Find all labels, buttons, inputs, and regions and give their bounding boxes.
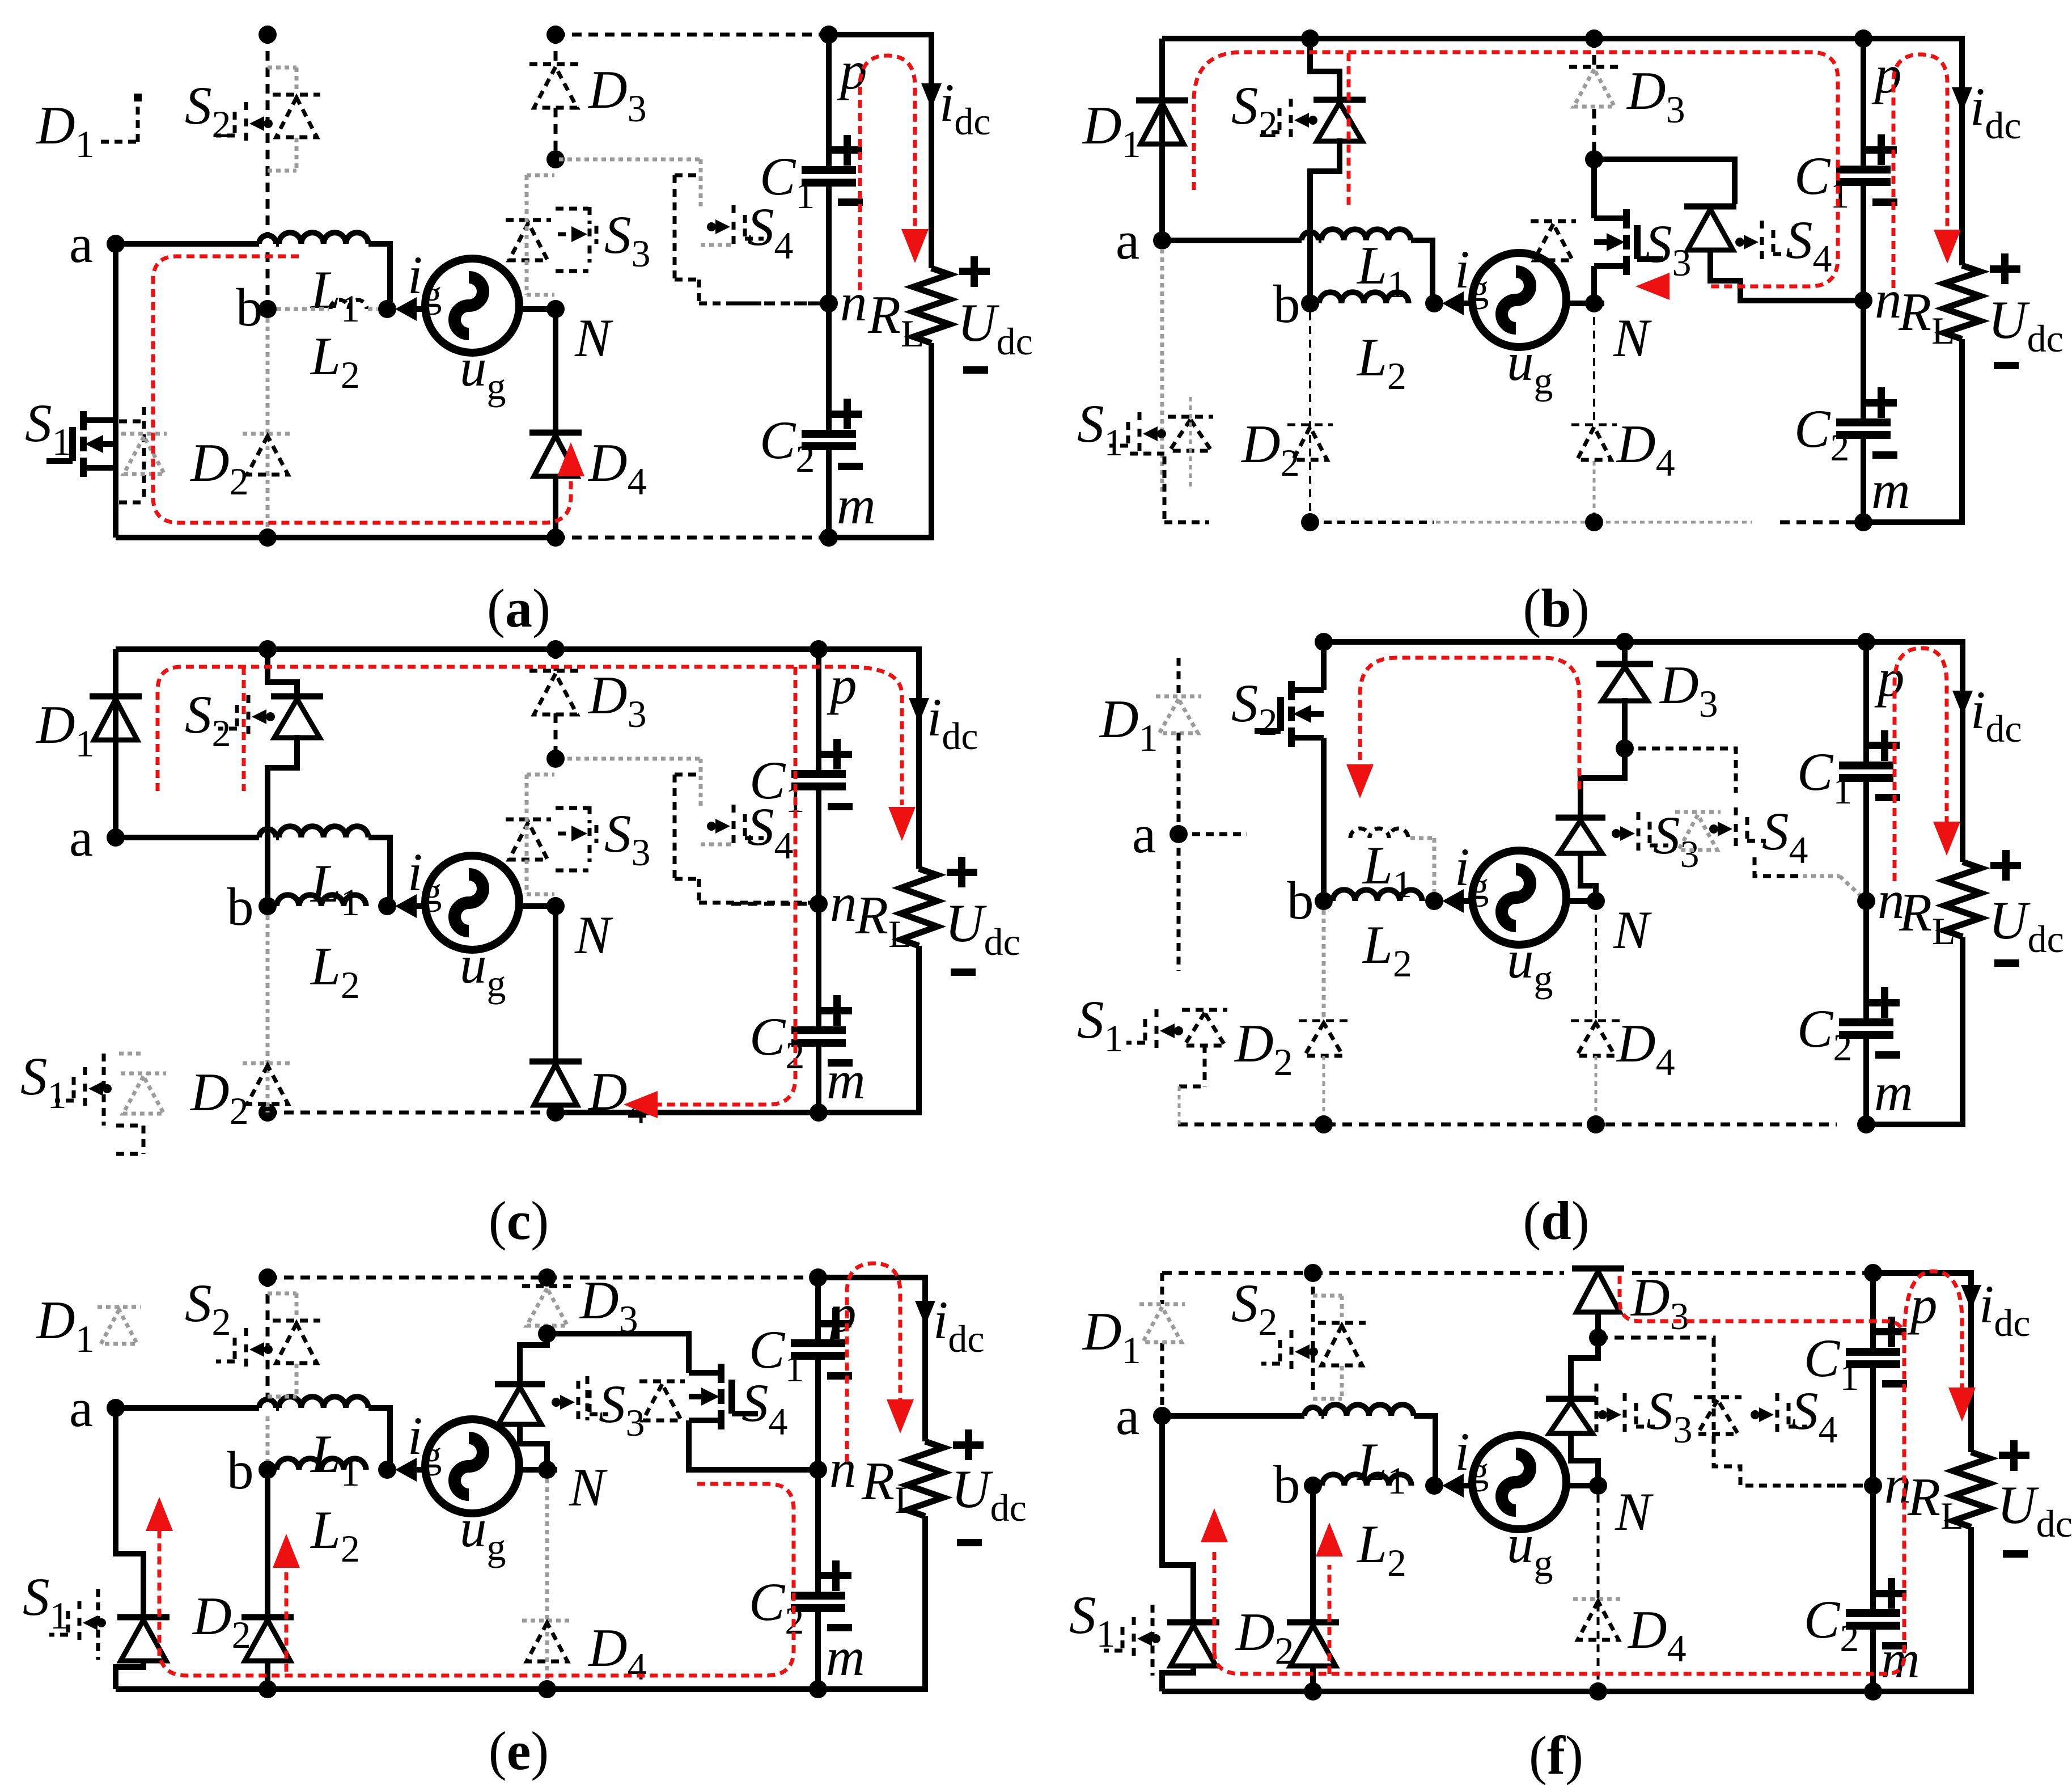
label D3 (a)	[587, 60, 647, 130]
red path branch down (c)	[658, 667, 795, 1105]
wire dashed top left (e)	[268, 1276, 547, 1280]
wire S2 leg lower (b)	[1310, 138, 1340, 303]
wire dashed S3-S4 link (f)	[1598, 1338, 1873, 1486]
svg-text:m: m	[837, 475, 876, 535]
current ig arrowhead (f)	[1442, 1474, 1464, 1498]
wire dashed colN top (b)	[1592, 39, 1596, 159]
label n (e)	[829, 1439, 857, 1499]
switch S4 gate (a)	[707, 205, 764, 248]
capacitor C2 (e)	[791, 1560, 852, 1631]
svg-text:m: m	[826, 1627, 865, 1687]
wire bottom (f)	[1162, 1689, 1971, 1694]
label idc (c)	[927, 687, 978, 758]
diode S1 body diode (a)	[121, 434, 167, 474]
wire dashed S1 bracket (d)	[1179, 1045, 1205, 1124]
label S2 (a)	[185, 75, 231, 146]
resistor RL (a)	[913, 268, 950, 343]
node S3 top (b)	[1585, 150, 1603, 168]
wire D4 to bottom (c)	[553, 1105, 558, 1113]
wire grey S2 links (a)	[268, 67, 296, 171]
red arrow S1 (e)	[146, 1497, 173, 1531]
node p (b)	[1854, 29, 1872, 48]
wire dashed bottom (d)	[1178, 1123, 1837, 1127]
label L2 (b)	[1356, 327, 1406, 397]
current ig arrowhead (c)	[395, 894, 417, 918]
label S1 (b)	[1077, 394, 1124, 464]
current idc arrow (c)	[909, 698, 929, 723]
label Udc plus (b)	[1990, 253, 2020, 284]
label n (b)	[1875, 269, 1902, 329]
node bottom N (d)	[1587, 1115, 1605, 1133]
wire capacitor column upper (a)	[826, 35, 832, 303]
red arrow S2 (d)	[1346, 764, 1374, 798]
label D1 (a)	[35, 95, 95, 166]
capacitor C2 (f)	[1846, 1578, 1907, 1649]
wire N down to D4 (c)	[553, 906, 558, 1061]
node ig junction (b)	[1425, 294, 1443, 312]
label S4 (b)	[1786, 210, 1832, 280]
node S3 top (f)	[1589, 1329, 1607, 1347]
wire S4 diode top (b)	[1594, 159, 1735, 204]
wire L1 to ig node (c)	[368, 837, 390, 902]
wire arrow to source (e)	[410, 1467, 425, 1473]
red path p loop (d)	[1895, 648, 1947, 881]
red path p loop (a)	[860, 56, 915, 290]
node D3 top (e)	[538, 1268, 556, 1287]
wire b down to D2 (f)	[1310, 1486, 1316, 1620]
label S4 (a)	[747, 197, 794, 267]
label D3 (d)	[1659, 655, 1718, 725]
wire D3 to node (f)	[1595, 1312, 1601, 1338]
diode D2 ghost (c)	[243, 1063, 293, 1104]
label Udc minus (e)	[957, 1539, 982, 1546]
label b (d)	[1287, 870, 1314, 930]
node m (d)	[1857, 1115, 1875, 1133]
svg-text:p: p	[826, 1283, 857, 1343]
svg-text:N: N	[569, 1457, 608, 1517]
svg-text:(a): (a)	[487, 578, 550, 638]
wire a-row (a)	[116, 235, 279, 244]
diode D4 ghost (d)	[1571, 1021, 1621, 1056]
label S3 (d)	[1653, 805, 1700, 875]
label D4 (c)	[587, 1061, 647, 1132]
wire capacitor column lower (d)	[1863, 901, 1869, 1124]
wire bottom (e)	[116, 1686, 818, 1692]
node bottom b (e)	[259, 1680, 277, 1698]
wire dashed S3-S4 link (d)	[1625, 748, 1736, 793]
wire grey S4 gate link (c)	[701, 843, 735, 847]
node p (e)	[809, 1268, 827, 1287]
node a (d)	[1170, 825, 1188, 843]
wire dashed colN top (a)	[554, 35, 558, 64]
svg-text:a: a	[69, 214, 93, 274]
label S3 (f)	[1646, 1381, 1693, 1451]
wire dashed colB top (e)	[266, 1278, 270, 1399]
node n (d)	[1857, 892, 1875, 910]
svg-text:(c): (c)	[489, 1190, 549, 1251]
label S4 (c)	[747, 797, 794, 867]
wire capacitor column lower (e)	[815, 1470, 821, 1689]
node n (a)	[820, 294, 838, 312]
red arrow into S4 (b)	[1635, 273, 1670, 300]
diode D1 (on) (c)	[90, 696, 142, 740]
diode S3 body ghost (b)	[1531, 221, 1576, 260]
label p (e)	[826, 1283, 857, 1343]
caption (d)	[1523, 1190, 1589, 1251]
label b (b)	[1273, 274, 1300, 334]
label L1 (c)	[310, 853, 360, 924]
wire L1 to ig node (b)	[1411, 240, 1433, 304]
svg-text:m: m	[827, 1050, 866, 1110]
svg-text:p: p	[837, 40, 867, 100]
wire p corner to rail (f)	[1873, 1273, 1971, 1452]
wire S4 branch top (e)	[547, 1334, 689, 1373]
label S2 (e)	[185, 1273, 231, 1343]
label L2 (d)	[1362, 915, 1412, 985]
wire grey colB b-D2 (c)	[266, 915, 270, 1113]
label D2 (c)	[189, 1062, 249, 1132]
label b (e)	[227, 1440, 254, 1500]
label ig (d)	[1455, 837, 1489, 907]
transistor S4 (on) (e)	[689, 1364, 758, 1429]
node N (b)	[1585, 294, 1603, 312]
diode D4 (on) (a)	[529, 433, 582, 476]
node N (f)	[1589, 1477, 1607, 1495]
switch S4 ghost (f)	[1751, 1393, 1807, 1436]
svg-text:b: b	[1287, 870, 1314, 930]
resistor RL (c)	[901, 869, 937, 946]
svg-text:a: a	[69, 807, 93, 868]
label RL (a)	[867, 285, 925, 355]
node bottom N (a)	[546, 528, 565, 547]
node b (c)	[259, 897, 277, 915]
switch S4 gate (c)	[707, 805, 764, 848]
node bottom b (c)	[259, 1103, 277, 1122]
label p (c)	[827, 655, 857, 715]
node bottom b (f)	[1304, 1682, 1322, 1701]
wire left column lower (f)	[1162, 1665, 1193, 1691]
label m (c)	[827, 1050, 866, 1110]
wire dashed colB b-bottom (b)	[1309, 312, 1311, 522]
label Udc plus (f)	[1999, 1440, 2029, 1471]
diode S2 body diode (on) (b)	[1313, 100, 1366, 141]
label Udc (c)	[945, 893, 1020, 963]
diode D2 ghost (a)	[243, 434, 293, 475]
label ug (a)	[460, 337, 506, 408]
wire S2 to b (d)	[1321, 738, 1327, 901]
diode D1 ghost (a)	[101, 94, 142, 142]
red arrow to RL (a)	[901, 229, 929, 263]
wire capacitor column upper (c)	[816, 649, 821, 904]
node b (f)	[1304, 1477, 1322, 1495]
source ug (b)	[1472, 253, 1566, 347]
switch S3 ghost (f)	[1596, 1384, 1655, 1437]
capacitor C1 (c)	[791, 739, 853, 810]
node N (a)	[546, 300, 565, 318]
wire rail below resistor (f)	[1873, 1527, 1971, 1691]
caption (b)	[1523, 578, 1589, 638]
node bottom b (a)	[259, 528, 277, 547]
label idc (a)	[939, 73, 991, 143]
wire arrow to source (f)	[1457, 1483, 1472, 1488]
inductor L1 ghost (d)	[1350, 828, 1408, 838]
red path main loop (b)	[1194, 52, 1838, 286]
current ig arrowhead (a)	[395, 297, 417, 321]
label Udc plus (d)	[1990, 850, 2021, 881]
node bottom b (d)	[1315, 1115, 1333, 1133]
capacitor C1 (a)	[802, 135, 863, 206]
label m (f)	[1881, 1629, 1920, 1689]
label L1 (f)	[1356, 1432, 1406, 1502]
diode S3 body diode (c)	[506, 819, 551, 860]
node ig junction (e)	[378, 1461, 396, 1479]
svg-text:p: p	[827, 655, 857, 715]
red arrow to RL (e)	[887, 1399, 914, 1433]
svg-text:a: a	[1132, 804, 1156, 864]
wire dashed colB top (a)	[266, 35, 270, 235]
diode S4 (on) (b)	[1684, 206, 1736, 250]
capacitor C1 (d)	[1839, 730, 1900, 801]
wire p corner to rail (c)	[819, 649, 919, 869]
wire capacitor column upper (b)	[1861, 39, 1866, 301]
capacitor C1 (f)	[1846, 1317, 1907, 1388]
wire S2 leg upper (c)	[268, 649, 297, 696]
inductor L1 (f)	[1324, 1405, 1414, 1416]
label ug (f)	[1507, 1514, 1553, 1584]
label D4 (a)	[587, 433, 647, 503]
diode S2 body diode (f)	[1318, 1323, 1366, 1365]
label p (f)	[1907, 1275, 1938, 1335]
svg-text:n: n	[1875, 269, 1902, 329]
wire bottom solid (c)	[556, 1110, 919, 1115]
label S2 (f)	[1231, 1273, 1278, 1343]
wire D3 to node (d)	[1622, 698, 1628, 748]
wire dashed colN lower (d)	[1595, 901, 1597, 1021]
switch S4 body bracket (a)	[675, 175, 699, 303]
diode D3 (on) (f)	[1572, 1268, 1624, 1312]
node N (d)	[1587, 892, 1605, 910]
svg-text:n: n	[1884, 1454, 1912, 1515]
wire a-row (c)	[116, 829, 279, 837]
switch S2 ghost mosfet (c)	[218, 695, 275, 738]
red path p loop (e)	[847, 1263, 900, 1462]
diode S4 ghost (f)	[1694, 1397, 1742, 1434]
node S3 top (d)	[1616, 739, 1634, 758]
current idc arrow (a)	[921, 83, 942, 108]
label a (b)	[1116, 210, 1139, 270]
label N (c)	[574, 905, 613, 965]
wire dashed D1 col (d)	[1177, 658, 1181, 971]
transistor S1 mosfet (a)	[46, 411, 116, 477]
label ug (e)	[460, 1498, 506, 1568]
node b (a)	[259, 300, 277, 318]
switch S2 ghost mosfet (e)	[216, 1328, 273, 1371]
wire source to N (b)	[1566, 301, 1604, 306]
wire dashed S1 diode bracket (a)	[119, 407, 144, 502]
wire D3 top (d)	[1622, 642, 1628, 664]
wire dashed colN lower (b)	[1593, 303, 1595, 522]
label C1 (c)	[749, 750, 804, 820]
red path D2 branch (e)	[285, 1568, 289, 1672]
wire dashed top D3-p (e)	[547, 1276, 818, 1280]
label Udc plus (e)	[953, 1429, 984, 1460]
node S3 top (e)	[538, 1325, 556, 1343]
wire L1 to ig node (f)	[1414, 1416, 1435, 1480]
red path S2 branch (b)	[1347, 53, 1351, 208]
capacitor C2 (c)	[791, 995, 853, 1067]
wire left column upper (e)	[116, 1408, 143, 1615]
wire bottom (a)	[116, 535, 556, 540]
label RL (f)	[1907, 1467, 1964, 1537]
source ug (a)	[425, 259, 519, 353]
wire S3 branch lower (e)	[520, 1424, 547, 1470]
label S1 (f)	[1069, 1585, 1116, 1655]
node bottom N (f)	[1589, 1682, 1607, 1701]
node b (e)	[259, 1461, 277, 1479]
wire N down to D4 (a)	[553, 309, 558, 433]
current idc arrow (f)	[1961, 1285, 1981, 1310]
label ug (d)	[1507, 929, 1553, 1000]
red arrow S1 (f)	[1201, 1508, 1228, 1542]
red arrow to RL (d)	[1933, 822, 1960, 856]
label Udc minus (d)	[1994, 959, 2019, 967]
wire dashed n stub (c)	[731, 902, 819, 906]
diode S3 body diode (a)	[506, 220, 551, 260]
label C2 (b)	[1794, 399, 1849, 469]
diode D4 ghost (e)	[522, 1621, 572, 1661]
label L2 (a)	[310, 326, 360, 396]
label D2 (f)	[1235, 1602, 1294, 1672]
wire capacitor column lower (c)	[816, 904, 821, 1113]
switch S4 ghost (b)	[1735, 221, 1792, 264]
label C1 (a)	[760, 146, 815, 217]
diode S1 (on) (e)	[117, 1617, 170, 1661]
diode D1 ghost (e)	[98, 1307, 141, 1344]
resistor RL (f)	[1953, 1452, 1989, 1527]
node m (b)	[1854, 513, 1872, 531]
red path D3 loop (f)	[1214, 1276, 1904, 1674]
wire grey S2 links (f)	[1313, 1296, 1342, 1399]
capacitor C1 (e)	[791, 1308, 852, 1380]
wire D4 to bottom (a)	[553, 476, 558, 538]
label L1 (b)	[1356, 235, 1406, 306]
label n (c)	[830, 873, 857, 933]
wire grey colB (d)	[1322, 910, 1326, 1021]
wire capacitor column lower (f)	[1870, 1486, 1876, 1691]
red arrow into D4 (a)	[557, 442, 584, 476]
label D2 (e)	[192, 1586, 251, 1656]
diode D4 (on) (c)	[529, 1061, 582, 1105]
wire capacitor column upper (d)	[1863, 642, 1869, 901]
label L1 (d)	[1362, 835, 1412, 906]
diode S4 body ghost (e)	[639, 1381, 685, 1420]
svg-text:m: m	[1871, 460, 1910, 520]
label Udc (e)	[951, 1459, 1027, 1529]
diode D2 ghost (b)	[1287, 425, 1333, 460]
node n (b)	[1854, 291, 1872, 310]
node bottom N (b)	[1585, 513, 1603, 531]
wire left column (c)	[113, 649, 118, 837]
source ug (f)	[1472, 1435, 1566, 1529]
svg-text:b: b	[1273, 274, 1300, 334]
diode S2 body diode (on) (c)	[271, 696, 323, 738]
svg-text:n: n	[829, 1439, 857, 1499]
svg-text:m: m	[1874, 1062, 1913, 1122]
diode D1 ghost (f)	[1139, 1304, 1185, 1342]
wire grey S4 gate link (a)	[701, 243, 735, 247]
diode S3 (on) (d)	[1556, 818, 1605, 853]
label m (e)	[826, 1627, 865, 1687]
wire grey S1 diode col (b)	[1189, 397, 1192, 488]
wire rail below resistor (c)	[819, 946, 919, 1113]
diode D2 (on) (f)	[1287, 1622, 1339, 1666]
label S4 (d)	[1762, 801, 1808, 872]
label C1 (d)	[1797, 742, 1852, 812]
wire rail below resistor (d)	[1866, 937, 1963, 1124]
wire a-row (e)	[116, 1399, 279, 1408]
svg-text:m: m	[1881, 1629, 1920, 1689]
label N (e)	[569, 1457, 608, 1517]
wire p corner to rail (e)	[818, 1278, 925, 1441]
svg-text:(f): (f)	[1529, 1725, 1583, 1785]
diode S1 ghost (d)	[1182, 1010, 1227, 1046]
source ug (e)	[425, 1419, 519, 1513]
wire L1 to ig node (e)	[368, 1408, 390, 1472]
wire p corner to rail (d)	[1866, 642, 1963, 862]
label C2 (d)	[1797, 999, 1852, 1069]
label D2 (d)	[1234, 1013, 1293, 1084]
wire left column (b)	[1159, 39, 1165, 240]
inductor L2 (d)	[1333, 890, 1422, 901]
label Udc minus (b)	[1994, 362, 2019, 369]
inductor L1 (b)	[1321, 229, 1411, 240]
label S2 (d)	[1231, 673, 1278, 743]
wire D2 to bottom (e)	[265, 1660, 270, 1689]
wire S3 branch (f)	[1571, 1338, 1598, 1397]
label ig (e)	[408, 1406, 442, 1476]
label ug (c)	[460, 934, 506, 1005]
diode D3 ghost (e)	[522, 1286, 572, 1326]
wire grey S2 links (e)	[268, 1293, 296, 1397]
label S1 (c)	[20, 1046, 67, 1116]
source ug (c)	[425, 856, 519, 950]
caption (e)	[489, 1720, 549, 1781]
node m (f)	[1864, 1682, 1882, 1701]
wire p corner to rail (a)	[829, 35, 931, 268]
label idc (e)	[933, 1290, 985, 1360]
wire grey b-L2 (a)	[277, 307, 378, 311]
label L1 (e)	[310, 1424, 360, 1494]
current idc arrow (b)	[1952, 87, 1972, 112]
label D4 (e)	[587, 1618, 647, 1688]
wire grey colB b-bottom (a)	[266, 318, 270, 538]
diode D2 (on) (e)	[241, 1617, 294, 1661]
svg-text:N: N	[1613, 900, 1652, 960]
label S1 (a)	[25, 393, 71, 463]
wire dashed colN lower (f)	[1597, 1495, 1600, 1691]
node n (f)	[1864, 1477, 1882, 1495]
label RL (e)	[861, 1451, 918, 1521]
transistor S1 ghost (c)	[55, 1054, 112, 1126]
label S3 (b)	[1645, 214, 1692, 284]
label D1 (b)	[1082, 95, 1141, 166]
red arrow to bottom (c)	[624, 1091, 658, 1118]
label b (a)	[236, 277, 263, 337]
wire source to N (f)	[1566, 1483, 1604, 1488]
wire dashed bottom to m (a)	[556, 536, 829, 540]
label a (a)	[69, 214, 93, 274]
svg-text:a: a	[69, 1378, 93, 1438]
